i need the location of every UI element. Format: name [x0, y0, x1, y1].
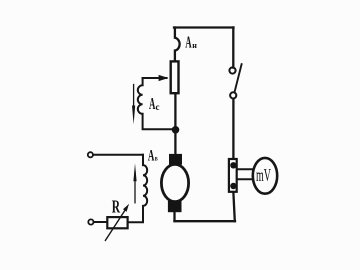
wire: top horizontal: [174, 26, 234, 28]
wire: block to mV meter (top lead): [238, 168, 253, 170]
svg-text:н: н: [192, 41, 197, 50]
arrowhead on Ac top wire: [159, 75, 169, 81]
brush: top: [169, 154, 182, 165]
wire: Ac loop top with arrow to resistor: [143, 77, 167, 79]
wire: bottom rail up to terminal block: [233, 193, 234, 221]
resistor (rheostat box): [171, 61, 179, 93]
wire: switch top to top rail: [232, 28, 234, 68]
terminal dot: top: [230, 162, 236, 168]
wire: R box to Aв coil bottom: [128, 221, 143, 223]
terminal: upper excitation: [88, 152, 93, 157]
wire: block to mV meter (bottom lead): [238, 178, 253, 180]
svg-text:A: A: [148, 145, 155, 164]
wire: upper terminal to Aв coil: [93, 154, 143, 156]
terminal dot: bottom: [230, 183, 236, 189]
svg-text:R: R: [112, 198, 121, 217]
svg-text:A: A: [185, 33, 192, 52]
svg-text:mV: mV: [256, 166, 271, 186]
meter mV: [253, 158, 277, 194]
node: junction dot: [172, 126, 180, 134]
brush: bottom: [168, 201, 182, 213]
terminal block (shunt): [229, 159, 237, 192]
switch: blade: [235, 64, 242, 92]
switch: bottom contact circle: [230, 92, 236, 98]
wire: bottom horizontal rail: [175, 220, 236, 222]
terminal: lower excitation: [88, 219, 93, 224]
current arrow (down) beside Ac: [133, 85, 135, 108]
rheostat arrow (diagonal): [105, 210, 125, 240]
switch: top contact circle: [229, 67, 235, 73]
wire: top-left drop with jog bump: [175, 28, 180, 61]
wire: block top up to switch: [232, 98, 234, 158]
current arrow (up) beside Aв: [134, 172, 136, 203]
svg-text:в: в: [155, 155, 158, 163]
wire: junction to armature top brush: [174, 130, 176, 155]
rheostat R box: [107, 217, 127, 228]
wire: lower terminal to R box: [94, 221, 108, 223]
svg-text:с: с: [156, 102, 160, 112]
motor armature M: [161, 164, 188, 201]
wire: resistor bottom to junction: [174, 94, 176, 129]
coil Aв (4 bumps, right bulge): [143, 155, 147, 222]
wire: armature bottom to bottom rail: [173, 212, 175, 221]
coil Ac (3 bumps, left side): [138, 78, 176, 129]
